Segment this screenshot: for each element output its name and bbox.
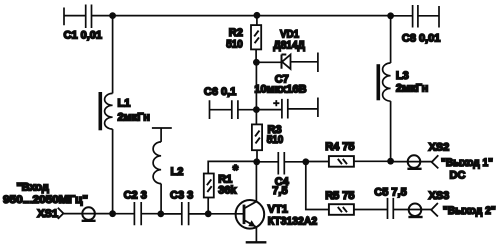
svg-text:XS2: XS2 [429, 142, 450, 154]
svg-text:DC: DC [450, 170, 466, 182]
node junction top-left [109, 12, 116, 19]
svg-text:C3 3: C3 3 [170, 189, 193, 201]
svg-text:510: 510 [226, 38, 243, 50]
svg-text:"Выход 1": "Выход 1" [441, 157, 493, 169]
svg-text:C8 0,01: C8 0,01 [402, 33, 441, 45]
svg-text:VT1: VT1 [268, 203, 288, 215]
node junction top-middle [254, 12, 261, 19]
svg-text:36k: 36k [218, 185, 237, 197]
svg-text:L3: L3 [396, 70, 409, 82]
node junction input/L1 [109, 210, 116, 217]
svg-text:2мкГн: 2мкГн [396, 82, 428, 94]
svg-text:C5 7,5: C5 7,5 [374, 187, 406, 199]
svg-text:950...2050МГц": 950...2050МГц" [3, 194, 88, 206]
node junction L2 bottom [157, 211, 164, 218]
resistor R4 [306, 156, 391, 167]
svg-text:R1: R1 [218, 174, 232, 186]
wire to XS2 [391, 161, 432, 163]
inductor L3 [378, 16, 390, 161]
resistor R3 [252, 124, 262, 161]
svg-text:Д814Д: Д814Д [273, 40, 305, 52]
resistor R1 [204, 174, 214, 214]
resistor R2 [251, 15, 261, 62]
connector XS2 [407, 155, 438, 169]
resistor R5 [329, 204, 388, 215]
wire left bus lower [112, 129, 114, 214]
wire collector row from R1 to C4 [208, 161, 257, 173]
node junction output split [302, 158, 309, 165]
capacitor C2 [113, 202, 161, 225]
svg-text:R4 75: R4 75 [325, 141, 354, 153]
wire collector lead [255, 162, 257, 202]
svg-text:2мкГн: 2мкГн [118, 111, 150, 123]
capacitor C8 [391, 5, 439, 28]
svg-text:"Вход: "Вход [16, 181, 48, 193]
node junction L3 bottom [387, 158, 394, 165]
svg-text:L1: L1 [118, 98, 131, 110]
wire middle bus between diode and C6/C7 row [255, 62, 257, 109]
node junction top-right [387, 12, 394, 19]
node junction diode row [253, 59, 260, 66]
capacitor C4 [257, 152, 306, 175]
svg-text:7,5: 7,5 [272, 185, 287, 197]
wire top rail [92, 15, 391, 17]
svg-text:L2: L2 [171, 166, 184, 178]
svg-text:XS3: XS3 [429, 190, 450, 202]
svg-text:КТ3132А2: КТ3132А2 [268, 216, 318, 228]
svg-text:*: * [233, 162, 239, 178]
svg-text:"Выход 2": "Выход 2" [443, 205, 496, 217]
node junction collector [253, 158, 260, 165]
node junction C6/C7 row [253, 106, 260, 113]
svg-text:R2: R2 [229, 27, 243, 39]
capacitor C3 [161, 202, 208, 225]
capacitor C7 (electrolytic) [256, 98, 318, 119]
capacitor C1 [64, 5, 92, 29]
diode VD1 (zener) [256, 53, 318, 73]
connector XS3 [408, 203, 438, 217]
svg-text:C2 3: C2 3 [124, 189, 147, 201]
svg-text:R5 75: R5 75 [325, 190, 354, 202]
svg-text:10мкх16В: 10мкх16В [254, 83, 306, 95]
wire middle bus between C7 row and R3 [255, 110, 257, 125]
capacitor C6 [210, 100, 257, 119]
transistor VT1 [236, 200, 265, 229]
capacitor C5 [388, 198, 432, 219]
connector XS1 [58, 207, 113, 221]
ground [246, 241, 267, 243]
node junction R1 bottom / base [205, 210, 212, 217]
wire left bus upper [112, 16, 114, 94]
wire base lead [208, 213, 244, 215]
wire down to R5 row [306, 162, 329, 210]
wire emitter lead [255, 227, 257, 242]
inductor L2 [152, 128, 172, 214]
inductor L1 [100, 92, 112, 130]
svg-text:C6 0,1: C6 0,1 [204, 86, 236, 98]
svg-text:XS1: XS1 [37, 208, 58, 220]
svg-text:C1 0,01: C1 0,01 [64, 29, 103, 41]
svg-text:510: 510 [267, 134, 284, 146]
